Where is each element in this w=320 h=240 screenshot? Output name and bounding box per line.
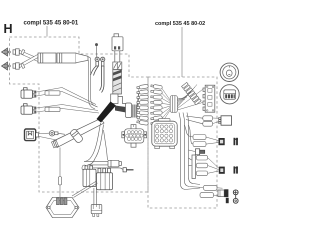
- svg-text:H: H: [4, 22, 13, 36]
- svg-text:compl 535 45 80-01: compl 535 45 80-01: [24, 21, 79, 27]
- svg-text:compl 535 45 80-02: compl 535 45 80-02: [155, 21, 205, 27]
